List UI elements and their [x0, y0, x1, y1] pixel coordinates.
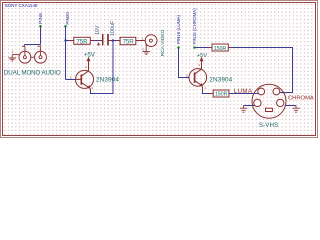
wire label1 down — [40, 26, 42, 44]
svg-text:+5V: +5V — [84, 52, 96, 59]
RCA jack J1 audio — [12, 46, 31, 63]
RCA jack J3 video — [141, 35, 157, 52]
power +5V T2 — [197, 53, 207, 63]
wire svhs gnd left — [244, 105, 255, 107]
svg-text:2N3904: 2N3904 — [209, 77, 232, 84]
power +5V T1 — [84, 52, 96, 63]
resistor R3 150R — [209, 44, 231, 52]
wire svhs gnd right — [285, 105, 296, 107]
wire video input down — [65, 26, 67, 79]
svg-text:CHROMA: CHROMA — [288, 95, 314, 101]
wire base T1 — [66, 79, 76, 81]
svg-text:150R: 150R — [214, 46, 227, 52]
ground audio — [9, 50, 17, 62]
svg-text:PIN16 (LUMA): PIN16 (LUMA) — [176, 15, 181, 45]
resistor R1 75R — [70, 37, 94, 45]
S-VHS connector J4 — [252, 84, 286, 118]
wire luma down to base T2 — [179, 48, 189, 78]
wire emitter T1 to node — [91, 41, 114, 94]
svg-text:2N3904: 2N3904 — [96, 77, 119, 84]
transistor Q1 2N3904 — [70, 63, 120, 92]
svg-text:+5V: +5V — [197, 53, 207, 59]
svg-text:PIN15 (CHROMA): PIN15 (CHROMA) — [192, 8, 197, 45]
capacitor C1 100uF — [95, 20, 116, 46]
svg-text:75R: 75R — [123, 38, 135, 45]
wire C1 to R2 — [108, 40, 120, 42]
svg-text:RCA VIDEO: RCA VIDEO — [160, 29, 166, 56]
svg-text:SONY CXA1145: SONY CXA1145 — [5, 3, 38, 8]
svg-text:S-VHS: S-VHS — [259, 122, 278, 129]
RCA jack J2 audio — [31, 45, 47, 63]
wire emitter T2 to R4 — [203, 91, 214, 94]
junction dot chroma — [193, 46, 196, 49]
svg-text:150R: 150R — [215, 92, 228, 98]
wire R2 to RCA — [136, 40, 146, 42]
svg-text:LUMA: LUMA — [234, 88, 253, 95]
svg-text:10V: 10V — [95, 25, 101, 35]
ground svhs left — [240, 106, 247, 113]
wire chroma to R3 — [195, 47, 210, 49]
wire audio tee — [25, 45, 41, 47]
ground RCA video — [143, 44, 151, 54]
transistor Q2 2N3904 — [186, 63, 233, 91]
svg-text:PIN8: PIN8 — [38, 13, 44, 24]
junction dot tee — [64, 39, 66, 41]
svg-text:100uF: 100uF — [110, 20, 116, 36]
svg-text:PIN20: PIN20 — [65, 12, 70, 25]
wire R1 to C1 — [90, 40, 102, 42]
junction dot PIN8 — [39, 25, 42, 28]
junction dot node — [112, 39, 114, 41]
wire tee to R1 — [66, 40, 74, 42]
svg-text:DUAL MONO AUDIO: DUAL MONO AUDIO — [4, 70, 61, 77]
junction dot PIN20 — [64, 25, 67, 28]
svg-text:75R: 75R — [76, 38, 88, 45]
resistor R2 75R — [117, 37, 142, 45]
resistor R4 150R — [209, 90, 233, 98]
junction dot luma — [177, 46, 180, 49]
ground svhs right — [292, 106, 299, 113]
wire R4 to svhs luma pin — [229, 93, 259, 95]
wire R3 to svhs chroma pin — [228, 48, 292, 93]
